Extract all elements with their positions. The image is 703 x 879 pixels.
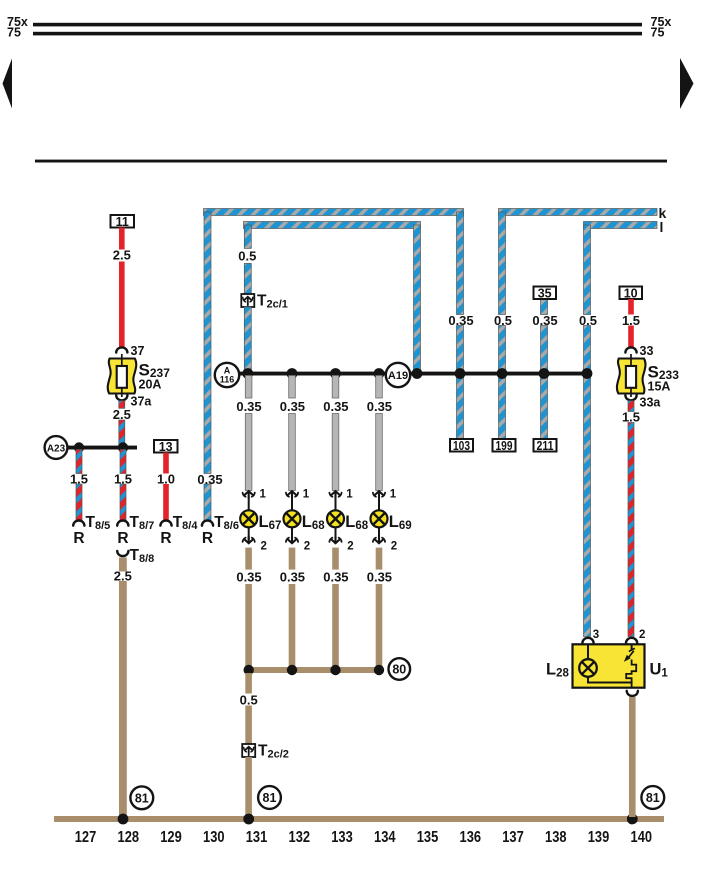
svg-text:128: 128 xyxy=(118,829,140,846)
svg-text:116: 116 xyxy=(220,375,235,385)
lamp L67 branch xyxy=(236,376,261,491)
junction dots on node 80 line xyxy=(244,665,385,675)
wire l right segment xyxy=(584,222,658,229)
svg-text:75: 75 xyxy=(7,26,21,40)
wire l to T2c/1 vertical xyxy=(238,225,256,294)
svg-text:1.0: 1.0 xyxy=(157,472,175,487)
lamp L67 pin 1 xyxy=(243,489,267,512)
svg-text:127: 127 xyxy=(75,829,97,846)
svg-text:134: 134 xyxy=(374,829,396,846)
ground bus xyxy=(54,816,664,822)
wire k-right drop to plug 199 xyxy=(494,212,512,439)
wire l-right drop to pin 3 xyxy=(579,225,597,637)
fuse S237 20A xyxy=(108,354,170,397)
separator line xyxy=(35,160,667,163)
plug 103 xyxy=(450,439,473,453)
svg-text:131: 131 xyxy=(246,829,268,846)
svg-text:1: 1 xyxy=(303,489,310,501)
junction dots on node line xyxy=(242,368,592,379)
lamp L68a pin 2 xyxy=(286,527,310,553)
lamp L67 xyxy=(240,510,281,532)
svg-text:13: 13 xyxy=(159,440,173,454)
terminal bus 75x xyxy=(7,15,671,29)
svg-text:0.5: 0.5 xyxy=(238,248,256,263)
pin bottom of U1 xyxy=(627,691,638,696)
lamp L68a xyxy=(284,510,326,532)
svg-text:1.5: 1.5 xyxy=(114,472,132,487)
svg-text:2: 2 xyxy=(261,541,267,553)
svg-text:T2c/2: T2c/2 xyxy=(258,743,289,761)
svg-text:R: R xyxy=(73,530,84,547)
svg-text:211: 211 xyxy=(537,439,554,453)
svg-text:L68: L68 xyxy=(345,513,368,532)
svg-text:2.5: 2.5 xyxy=(114,569,132,584)
svg-text:0.35: 0.35 xyxy=(532,313,557,328)
wire L68b to node 80 brown 0.35 xyxy=(323,548,348,670)
plug 10 xyxy=(620,287,643,301)
svg-text:A23: A23 xyxy=(47,443,66,454)
connector T2c/1 xyxy=(241,293,288,311)
svg-text:0.35: 0.35 xyxy=(197,472,222,487)
lamp L68b branch xyxy=(323,376,348,491)
pin 37a xyxy=(116,395,152,409)
node A23 xyxy=(45,436,68,459)
svg-text:A19: A19 xyxy=(388,370,408,382)
svg-text:2.5: 2.5 xyxy=(113,407,131,422)
plug 211 xyxy=(534,439,557,453)
lamp L67 pin 2 xyxy=(243,527,267,553)
connector T8/7 xyxy=(117,514,154,547)
svg-text:l: l xyxy=(660,219,664,235)
wire to T8/7 red/blue 1.5 xyxy=(114,450,132,521)
svg-text:2: 2 xyxy=(391,541,397,553)
svg-text:20A: 20A xyxy=(139,378,162,392)
svg-text:0.35: 0.35 xyxy=(323,570,348,585)
svg-text:1.5: 1.5 xyxy=(622,410,640,425)
svg-text:10: 10 xyxy=(624,287,638,301)
svg-text:1: 1 xyxy=(390,489,397,501)
ground bus junction dots xyxy=(118,814,638,825)
svg-text:2: 2 xyxy=(304,541,310,553)
svg-text:0.35: 0.35 xyxy=(280,570,305,585)
wire l-left drop vertical xyxy=(414,225,421,374)
svg-text:136: 136 xyxy=(460,829,482,846)
svg-text:75: 75 xyxy=(651,26,665,40)
svg-text:81: 81 xyxy=(646,791,660,805)
svg-text:199: 199 xyxy=(496,439,513,453)
lamp L68b xyxy=(327,510,369,532)
wire T2c/2 to ground 81 brown xyxy=(245,757,252,817)
contact step symbol inside U1 xyxy=(626,660,636,689)
svg-text:0.5: 0.5 xyxy=(494,313,512,328)
svg-text:0.5: 0.5 xyxy=(579,313,597,328)
svg-text:137: 137 xyxy=(502,829,524,846)
node A19 xyxy=(386,363,410,387)
wire 10 to fuse S233 red 1.5 xyxy=(622,299,640,348)
svg-text:11: 11 xyxy=(116,215,129,229)
svg-text:T8/7: T8/7 xyxy=(130,514,155,532)
svg-text:81: 81 xyxy=(263,791,277,805)
svg-text:0.5: 0.5 xyxy=(240,693,258,708)
lamp L69 branch xyxy=(367,376,392,491)
svg-text:140: 140 xyxy=(631,829,653,846)
svg-text:33: 33 xyxy=(640,344,654,358)
svg-text:15A: 15A xyxy=(648,380,671,394)
svg-text:L67: L67 xyxy=(259,513,282,532)
pin 2 of U1 xyxy=(626,629,645,643)
svg-text:0.35: 0.35 xyxy=(280,399,305,414)
svg-text:133: 133 xyxy=(331,829,353,846)
svg-text:132: 132 xyxy=(289,829,311,846)
wire to T8/6 vertical xyxy=(197,212,222,521)
svg-text:0.35: 0.35 xyxy=(323,399,348,414)
svg-text:1: 1 xyxy=(346,489,353,501)
svg-text:1.5: 1.5 xyxy=(622,313,640,328)
wire node 80 to T2c/2 brown 0.5 xyxy=(240,673,258,744)
node 80 line xyxy=(245,667,381,673)
svg-text:81: 81 xyxy=(135,791,149,805)
ground symbol 81 right xyxy=(641,786,664,809)
svg-text:0.35: 0.35 xyxy=(236,399,261,414)
svg-text:3: 3 xyxy=(593,629,599,641)
svg-text:103: 103 xyxy=(453,439,470,453)
plug 13 xyxy=(154,440,178,454)
svg-text:135: 135 xyxy=(417,829,439,846)
connector T8/4 xyxy=(160,514,198,547)
wire k right segment xyxy=(499,209,658,216)
svg-text:L68: L68 xyxy=(302,513,325,532)
wire fuse to node A23 red/blue 2.5 xyxy=(113,401,131,446)
node line A116-A19 xyxy=(238,372,589,376)
svg-text:L69: L69 xyxy=(389,513,412,532)
svg-text:T8/5: T8/5 xyxy=(86,514,111,532)
plug 35 xyxy=(534,287,557,301)
wire T2c/1 to node A116 xyxy=(244,307,251,374)
wire k-left drop to plug 103 xyxy=(448,212,473,439)
wire l left segment xyxy=(244,222,421,229)
svg-text:2.5: 2.5 xyxy=(113,248,131,263)
svg-text:33a: 33a xyxy=(640,396,662,410)
svg-text:2: 2 xyxy=(347,541,353,553)
wire 11 to fuse S237 red 2.5 xyxy=(113,228,131,348)
svg-text:138: 138 xyxy=(545,829,567,846)
continuation arrow right xyxy=(680,58,694,109)
pin 33 xyxy=(625,344,653,358)
svg-text:1.5: 1.5 xyxy=(70,472,88,487)
wire L69 to node 80 brown 0.35 xyxy=(367,548,392,670)
plug contact symbol inside U1 xyxy=(624,648,635,662)
pin 3 of U1 xyxy=(582,629,599,643)
svg-text:2: 2 xyxy=(639,629,645,641)
svg-text:0.35: 0.35 xyxy=(367,570,392,585)
lamp L69 pin 2 xyxy=(373,527,397,553)
svg-text:R: R xyxy=(160,530,171,547)
wire U1 to ground 81 brown xyxy=(629,697,636,817)
junction dots on A23 line xyxy=(74,442,128,452)
lamp L28 xyxy=(579,659,597,677)
control unit U1 with lamp L28 xyxy=(573,644,645,688)
wire L68a to node 80 brown 0.35 xyxy=(280,548,305,670)
connector T8/6 xyxy=(202,514,239,547)
svg-text:0.35: 0.35 xyxy=(236,570,261,585)
connector T8/8 xyxy=(117,547,154,565)
connector T8/5 xyxy=(73,514,110,547)
wire to T8/5 red/blue 1.5 xyxy=(70,450,88,521)
svg-text:37: 37 xyxy=(131,344,145,358)
svg-text:129: 129 xyxy=(160,829,182,846)
pin 37 xyxy=(116,344,144,358)
svg-text:139: 139 xyxy=(588,829,610,846)
svg-text:80: 80 xyxy=(392,663,406,677)
svg-text:37a: 37a xyxy=(131,395,153,409)
lamp L68b pin 2 xyxy=(329,527,353,553)
node A116 xyxy=(215,363,239,387)
svg-text:T8/4: T8/4 xyxy=(173,514,199,532)
wire L67 to node 80 brown 0.35 xyxy=(236,548,261,670)
svg-text:R: R xyxy=(117,530,128,547)
terminal bus 75 xyxy=(7,26,664,40)
lamp L68a branch xyxy=(280,376,305,491)
wire T8/8 to ground 81 brown 2.5 xyxy=(114,558,132,818)
continuation arrow left xyxy=(3,59,13,109)
wire 13 to T8/4 red 1.0 xyxy=(157,453,175,521)
svg-text:0.35: 0.35 xyxy=(448,313,473,328)
svg-text:L28: L28 xyxy=(546,661,569,680)
ground symbol 81 left xyxy=(130,786,153,809)
svg-text:T2c/1: T2c/1 xyxy=(257,293,288,311)
wire k left segment xyxy=(204,209,464,216)
node 80 xyxy=(389,658,411,680)
pin 33a xyxy=(625,395,661,409)
lamp L68b pin 1 xyxy=(329,489,353,512)
fuse S233 15A xyxy=(617,354,679,397)
svg-text:1: 1 xyxy=(260,489,267,501)
wire fuse S233 to pin 2 red/blue 1.5 xyxy=(622,401,640,637)
svg-text:0.35: 0.35 xyxy=(367,399,392,414)
svg-text:U1: U1 xyxy=(650,661,669,680)
lamp L68a pin 1 xyxy=(286,489,310,512)
svg-text:35: 35 xyxy=(538,287,552,301)
plug 11 xyxy=(111,215,135,229)
wire plug 35 to plug 211 xyxy=(532,299,557,439)
svg-text:T8/6: T8/6 xyxy=(214,514,239,532)
svg-text:130: 130 xyxy=(203,829,225,846)
connector T2c/2 xyxy=(242,743,289,761)
ground symbol 81 middle xyxy=(258,786,281,809)
lamp L69 pin 1 xyxy=(373,489,397,512)
svg-text:R: R xyxy=(202,530,213,547)
node line A23 xyxy=(66,446,137,450)
plug 199 xyxy=(493,439,516,453)
svg-text:T8/8: T8/8 xyxy=(130,547,155,565)
lamp L69 xyxy=(371,510,412,532)
